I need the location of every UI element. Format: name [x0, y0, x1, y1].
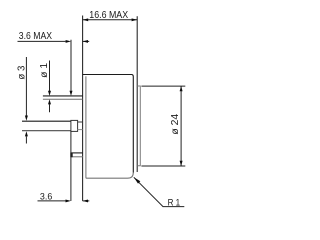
dim 16.6 MAX left arrow	[83, 18, 89, 21]
lead 1 pin top line	[43, 95, 83, 97]
dim ø24 bottom extension line	[141, 165, 185, 167]
wire: right stub (ø24 face) vertical, gray	[137, 86, 140, 166]
svg-text:3.6 MAX: 3.6 MAX	[19, 31, 53, 42]
lead 3 stub pin top line	[71, 152, 83, 154]
lead 1 pin bottom line	[43, 98, 83, 100]
extension line x=71 upper with down arrow onto lead 1	[70, 40, 72, 91]
wire: left face vertical / extension line	[82, 16, 84, 201]
lead 2 neck bottom line	[78, 129, 83, 131]
dim 16.6 MAX right arrow	[132, 18, 138, 21]
dim ø1 line upper with down arrow	[49, 61, 51, 92]
dim ø24 vertical line	[180, 86, 182, 166]
svg-text:ø 24: ø 24	[170, 114, 181, 135]
dim ø24 up arrow	[180, 86, 183, 91]
dim 3.6 bottom leader line	[38, 200, 66, 202]
svg-text:ø 1: ø 1	[39, 62, 50, 77]
dim ø24 down arrow	[180, 161, 183, 166]
lead 2 sleeve bottom line	[22, 130, 71, 132]
lead 2 collar	[71, 120, 78, 131]
wire: can top edge + inner right edge	[83, 75, 134, 173]
extension line x=70.9 lower	[70, 131, 72, 201]
dim 16.6 MAX line	[83, 19, 138, 21]
svg-text:R 1: R 1	[168, 197, 181, 208]
wire: can bottom edge (gray) with R corner	[86, 173, 133, 179]
dim 3.6 MAX left arrow (points right)	[66, 40, 71, 43]
lead 3 tip cap	[70, 153, 72, 158]
dim ø3 line upper with down arrow	[25, 57, 27, 116]
dim 3.6 bottom right arrow (points left) with tail	[83, 200, 90, 202]
svg-text:16.6 MAX: 16.6 MAX	[89, 10, 128, 21]
dim 3.6 MAX right arrow (points left) with tail	[83, 40, 90, 42]
lead 2 neck top line	[78, 121, 83, 123]
lead 2 sleeve top line	[22, 120, 71, 122]
wire: left seam vertical	[85, 76, 87, 177]
dim ø3 line lower with up arrow	[25, 136, 27, 143]
dim ø24 top extension line	[141, 85, 185, 87]
dim 3.6 bottom left arrow (points right)	[66, 199, 71, 202]
dim 3.6 MAX leader line	[18, 40, 66, 42]
wire: outer right face vertical	[136, 16, 138, 172]
R1 leader with arrow	[134, 177, 185, 206]
svg-text:3.6: 3.6	[40, 191, 52, 202]
dim ø1 line lower with up arrow	[49, 104, 51, 112]
lead 3 stub pin bottom line	[71, 156, 83, 158]
svg-text:ø 3: ø 3	[17, 65, 28, 79]
